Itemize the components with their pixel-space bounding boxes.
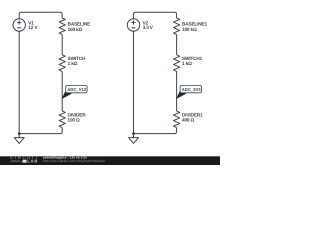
svg-text:100 kΩ: 100 kΩ [68,27,83,32]
wire: BASELINE1 bottom to SWITCH1 top [176,35,178,55]
svg-text:BASELINE1: BASELINE1 [182,22,208,27]
wire: DIVIDER bottom to ground rail across to V1 [19,128,62,134]
footer bar [0,156,220,165]
resistor DIVIDER [59,111,65,128]
footer logo zigzag [10,160,21,162]
resistor SWITCH [59,55,65,72]
svg-text:ADC_3V3: ADC_3V3 [182,87,201,92]
svg-text:100 kΩ: 100 kΩ [182,27,197,32]
svg-text:http://circuitlab.com/c/by5w9n: http://circuitlab.com/c/by5w9n84wc8u [43,159,105,163]
svg-text:1 kΩ: 1 kΩ [182,61,192,66]
footer logo LAB mark [23,160,27,163]
net flag ADC_V12 pointer [62,92,72,99]
svg-text:1 kΩ: 1 kΩ [68,61,78,66]
svg-text:LAB: LAB [27,159,37,164]
svg-text:400 Ω: 400 Ω [182,118,195,123]
junction node at V1 bottom [18,132,21,135]
wire: DIVIDER1 bottom to ground rail across to V2 [134,128,177,134]
wire: V2 bottom down to ground rail [133,31,135,134]
resistor DIVIDER1 [174,111,180,128]
junction node at V2 bottom [132,132,135,135]
svg-text:3.3 V: 3.3 V [143,25,154,30]
net flag ADC_3V3 box [180,85,201,92]
wire: V1 top node to BASELINE top [19,12,62,19]
svg-text:12 V: 12 V [28,25,38,30]
net flag ADC_3V3 pointer [176,92,186,99]
ground (right circuit) [129,134,139,144]
net flag ADC_V12 box [66,85,87,92]
voltage source V1 [13,19,25,31]
resistor BASELINE1 [174,18,180,35]
resistor SWITCH1 [174,55,180,72]
resistor BASELINE [59,18,65,35]
ground (left circuit) [14,134,24,144]
svg-text:BASELINE: BASELINE [68,22,91,27]
voltage source V2 [127,19,139,31]
svg-text:100 Ω: 100 Ω [68,118,81,123]
wire: SWITCH bottom to DIVIDER top [61,71,63,111]
wire: V1 bottom down to ground rail [18,31,20,134]
wire: SWITCH1 bottom to DIVIDER1 top [176,71,178,111]
svg-text:ADC_V12: ADC_V12 [67,87,86,92]
wire: BASELINE bottom to SWITCH top [61,35,63,55]
wire: V2 top node to BASELINE1 top [134,12,177,19]
